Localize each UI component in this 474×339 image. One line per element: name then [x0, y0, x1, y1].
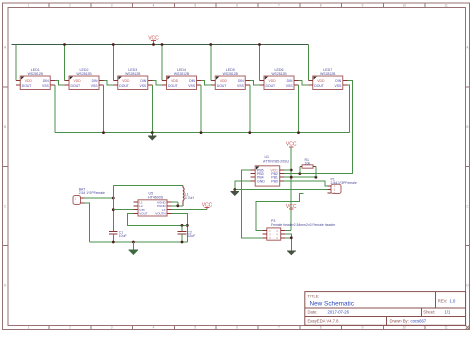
svg-text:4: 4	[153, 4, 155, 8]
svg-text:DIN: DIN	[43, 79, 49, 83]
junction dot rail/LED6	[258, 43, 261, 46]
LED5 WS2812B	[211, 68, 250, 90]
svg-text:WS2812B: WS2812B	[28, 72, 44, 76]
svg-text:Sheet:: Sheet:	[423, 310, 435, 315]
svg-text:2: 2	[69, 4, 71, 8]
junction dot LX	[176, 204, 179, 207]
svg-text:DIN: DIN	[92, 79, 98, 83]
svg-text:6: 6	[236, 4, 238, 8]
junction dot GND corner	[233, 188, 236, 191]
svg-text:1: 1	[28, 326, 30, 330]
ground symbol near U1	[234, 190, 236, 192]
svg-text:VDD: VDD	[220, 79, 228, 83]
svg-text:VDD: VDD	[122, 79, 130, 83]
wire R1 left lead to PB2	[299, 167, 301, 174]
wire LED1 DIN to LED2 DOUT	[55, 81, 65, 86]
svg-text:DIN: DIN	[189, 79, 195, 83]
wire VCC drop to LED7 VDD	[307, 45, 309, 81]
svg-text:DOUT: DOUT	[22, 84, 32, 88]
wire P3 pin2 from VCC vertical	[285, 230, 291, 232]
wire VOUT loop under U5	[127, 213, 187, 225]
wire U5 VCC row to flag	[172, 209, 208, 211]
junction dot BAT+	[112, 197, 115, 200]
wire VCC drop to LED6 VDD	[259, 45, 261, 81]
junction dot rail/LED2	[63, 43, 66, 46]
svg-text:9: 9	[362, 326, 364, 330]
wire LED2 DIN to LED3 DOUT	[104, 81, 114, 86]
svg-text:VSS: VSS	[139, 84, 147, 88]
svg-text:DOUT: DOUT	[217, 84, 227, 88]
junction dot C1/bus	[112, 241, 115, 244]
wire L1 to LX rows	[178, 205, 183, 207]
wire U5 VOUTN down to bus	[172, 213, 188, 242]
svg-text:VSS: VSS	[237, 84, 245, 88]
wire VIN vertical from boost loop to C1	[112, 185, 114, 231]
ground symbol on LED bus	[151, 133, 153, 137]
wire VCC vertical to U1 and P3	[290, 147, 292, 231]
svg-text:B: B	[4, 125, 6, 129]
svg-text:cocs667: cocs667	[411, 318, 427, 323]
wire LED7 VSS to bus end	[347, 85, 349, 133]
svg-text:DOUT: DOUT	[119, 84, 129, 88]
svg-text:1.0: 1.0	[450, 299, 456, 304]
svg-text:1: 1	[28, 4, 30, 8]
svg-text:2017-07-26: 2017-07-26	[328, 310, 350, 315]
svg-text:VDD: VDD	[317, 79, 325, 83]
svg-text:7: 7	[278, 326, 280, 330]
wire PB0 to P1 pin1	[284, 181, 327, 186]
svg-text:VOUT: VOUT	[139, 212, 148, 216]
svg-text:10uF: 10uF	[119, 234, 127, 238]
wire boost top loop	[113, 184, 183, 186]
svg-text:DIN: DIN	[140, 79, 146, 83]
svg-text:2.54 1*3PFemale: 2.54 1*3PFemale	[331, 181, 357, 185]
title block	[305, 292, 466, 326]
wire LED3 DIN to LED4 DOUT	[152, 81, 162, 86]
svg-text:DOUT: DOUT	[168, 84, 178, 88]
LED1 WS2812B	[16, 68, 55, 90]
junction dot on rail at VCC stem	[152, 43, 155, 46]
svg-text:WS2812B: WS2812B	[125, 72, 141, 76]
svg-text:3: 3	[111, 4, 113, 8]
wire P3 pin4/pin6 to ground	[285, 234, 291, 251]
svg-text:10: 10	[403, 4, 407, 8]
junction dot rail/LED3	[112, 43, 115, 46]
svg-text:DIN: DIN	[238, 79, 244, 83]
svg-text:VSS: VSS	[42, 84, 50, 88]
svg-text:Drawn By:: Drawn By:	[390, 318, 409, 323]
wire U1 VCC pin to vertical	[284, 169, 291, 171]
wire VCC drop to LED4 VDD	[161, 45, 163, 81]
svg-text:9: 9	[362, 4, 364, 8]
svg-text:VDD: VDD	[74, 79, 82, 83]
svg-text:HT4600S: HT4600S	[148, 195, 164, 199]
capacitor C1 10uF	[109, 230, 127, 242]
svg-text:VDD: VDD	[269, 79, 277, 83]
junction dot U1 VCC	[290, 169, 293, 172]
svg-text:5: 5	[194, 4, 196, 8]
wire U1 GND to ground and P1 pin2	[235, 181, 328, 190]
capacitor C2 22uF	[178, 225, 196, 242]
wire BAT+ to node	[85, 197, 114, 199]
svg-text:PB0: PB0	[271, 179, 278, 183]
wire LED1 VSS down to bus	[54, 85, 56, 133]
P3 Female header 2x3	[262, 219, 336, 240]
svg-text:2.54 1*2PFemale: 2.54 1*2PFemale	[79, 191, 105, 195]
svg-text:2: 2	[69, 326, 71, 330]
LED6 WS2812B	[260, 68, 299, 90]
wire LED5 VSS down to bus	[249, 85, 251, 133]
svg-text:8: 8	[320, 326, 322, 330]
svg-text:22uF: 22uF	[188, 234, 196, 238]
wire LED6 VSS down to bus	[298, 85, 300, 133]
wire LED2 VSS down to bus	[103, 85, 105, 133]
svg-text:WS2812B: WS2812B	[76, 72, 92, 76]
ground symbol main	[132, 242, 134, 250]
svg-text:VCC: VCC	[148, 35, 159, 41]
LED7 WS2812B	[308, 68, 347, 90]
wire LED7 DIN down to PB2 net	[284, 81, 352, 174]
LED3 WS2812B	[113, 68, 152, 90]
svg-text:DOUT: DOUT	[266, 84, 276, 88]
svg-text:WS2812B: WS2812B	[223, 72, 239, 76]
svg-text:DOUT: DOUT	[314, 84, 324, 88]
svg-text:GND: GND	[257, 179, 265, 183]
wire LED5 DIN to LED6 DOUT	[250, 81, 260, 86]
wire LED4 DIN to LED5 DOUT	[201, 81, 211, 86]
wire VCC drop to LED2 VDD	[64, 45, 66, 81]
op VCC flag near P3	[289, 208, 294, 210]
wire VCC rail	[12, 44, 309, 46]
wire LED4 VSS down to bus	[200, 85, 202, 133]
svg-text:New Schematic: New Schematic	[310, 300, 355, 307]
wire BAT- down to ground bus	[85, 203, 90, 242]
wire R1 right lead to PB1	[315, 167, 317, 178]
wire LED3 VSS down to bus	[151, 85, 153, 133]
svg-text:DIN: DIN	[287, 79, 293, 83]
U5 HT4600S boost converter	[134, 192, 172, 216]
wire PB1 row	[284, 176, 316, 178]
svg-text:VOUTN: VOUTN	[155, 212, 166, 216]
wire node to U5 NTF pin	[113, 209, 133, 211]
junction dot NTF row	[112, 208, 115, 211]
svg-text:Date:: Date:	[308, 310, 318, 315]
svg-text:VCC: VCC	[286, 204, 297, 210]
svg-text:WS2812B: WS2812B	[320, 72, 336, 76]
svg-text:11: 11	[444, 4, 448, 8]
junction dot rail/LED5	[209, 43, 212, 46]
wire VCC drop to LED5 VDD	[210, 45, 212, 81]
VCC power flag (top)	[153, 41, 155, 45]
svg-text:VDD: VDD	[25, 79, 33, 83]
wire VCC drop to LED1 VDD	[15, 45, 17, 81]
junction dot PB1 at VCC vertical	[290, 176, 293, 179]
svg-text:DIN: DIN	[335, 79, 341, 83]
svg-text:8: 8	[320, 4, 322, 8]
wire node to P3 pin1	[256, 193, 304, 230]
VCC power flag above U1	[289, 146, 294, 148]
svg-text:VSS: VSS	[334, 84, 342, 88]
svg-text:REV:: REV:	[438, 299, 448, 304]
junction dot VOUT loop	[186, 224, 189, 227]
svg-text:4: 4	[153, 326, 155, 330]
P1 connector 2.54 1*3PFemale	[328, 177, 357, 195]
svg-text:B: B	[466, 125, 468, 129]
junction dot P3 pin6	[290, 236, 293, 239]
svg-text:VSS: VSS	[188, 84, 196, 88]
svg-text:VSS: VSS	[91, 84, 99, 88]
svg-text:4.7uH: 4.7uH	[185, 196, 195, 200]
svg-text:DOUT: DOUT	[71, 84, 81, 88]
junction dot C2/bus	[181, 241, 184, 244]
U1 ATTINY85-20SU	[251, 155, 290, 186]
svg-text:1/1: 1/1	[445, 310, 451, 315]
svg-text:7: 7	[278, 4, 280, 8]
svg-text:11: 11	[444, 326, 448, 330]
wire VCC drop to LED3 VDD	[112, 45, 114, 81]
wire PB2 row	[284, 173, 352, 175]
ground symbol below P3	[287, 250, 296, 252]
svg-text:6: 6	[236, 326, 238, 330]
svg-text:VSS: VSS	[286, 84, 294, 88]
VCC flag at U5 output	[205, 206, 210, 208]
BAT connector 2.54 1*2PFemale	[73, 188, 105, 205]
svg-text:5: 5	[194, 326, 196, 330]
svg-text:Female header2.54mm2x3 Female: Female header2.54mm2x3 Female header	[271, 223, 336, 227]
junction dot PB1/R1	[315, 176, 318, 179]
junction dot PB2/R1	[298, 172, 301, 175]
svg-text:WS2812B: WS2812B	[174, 72, 190, 76]
svg-text:ATTINY85-20SU: ATTINY85-20SU	[263, 159, 289, 163]
junction dot gnd stem	[132, 241, 135, 244]
resistor R1	[300, 158, 316, 168]
svg-text:10k: 10k	[305, 161, 311, 165]
junction dot rail/LED4	[161, 43, 164, 46]
svg-text:3: 3	[111, 326, 113, 330]
svg-text:VCC: VCC	[286, 142, 297, 148]
LED2 WS2812B	[65, 68, 104, 90]
LED4 WS2812B	[162, 68, 201, 90]
wire ground bus under LEDs	[55, 132, 350, 134]
inductor L1 4.7uH	[183, 185, 194, 205]
svg-text:WS2812B: WS2812B	[271, 72, 287, 76]
svg-text:EasyEDA V4.7.8: EasyEDA V4.7.8	[308, 318, 340, 323]
junction dot C2 top	[181, 224, 184, 227]
wire lower ground bus	[90, 241, 188, 243]
wire LED6 DIN to LED7 DOUT	[299, 81, 309, 86]
svg-text:TITLE:: TITLE:	[308, 293, 320, 298]
svg-text:10: 10	[403, 326, 407, 330]
svg-text:VDD: VDD	[171, 79, 179, 83]
wire PB5 to P3 pin5	[242, 170, 263, 238]
